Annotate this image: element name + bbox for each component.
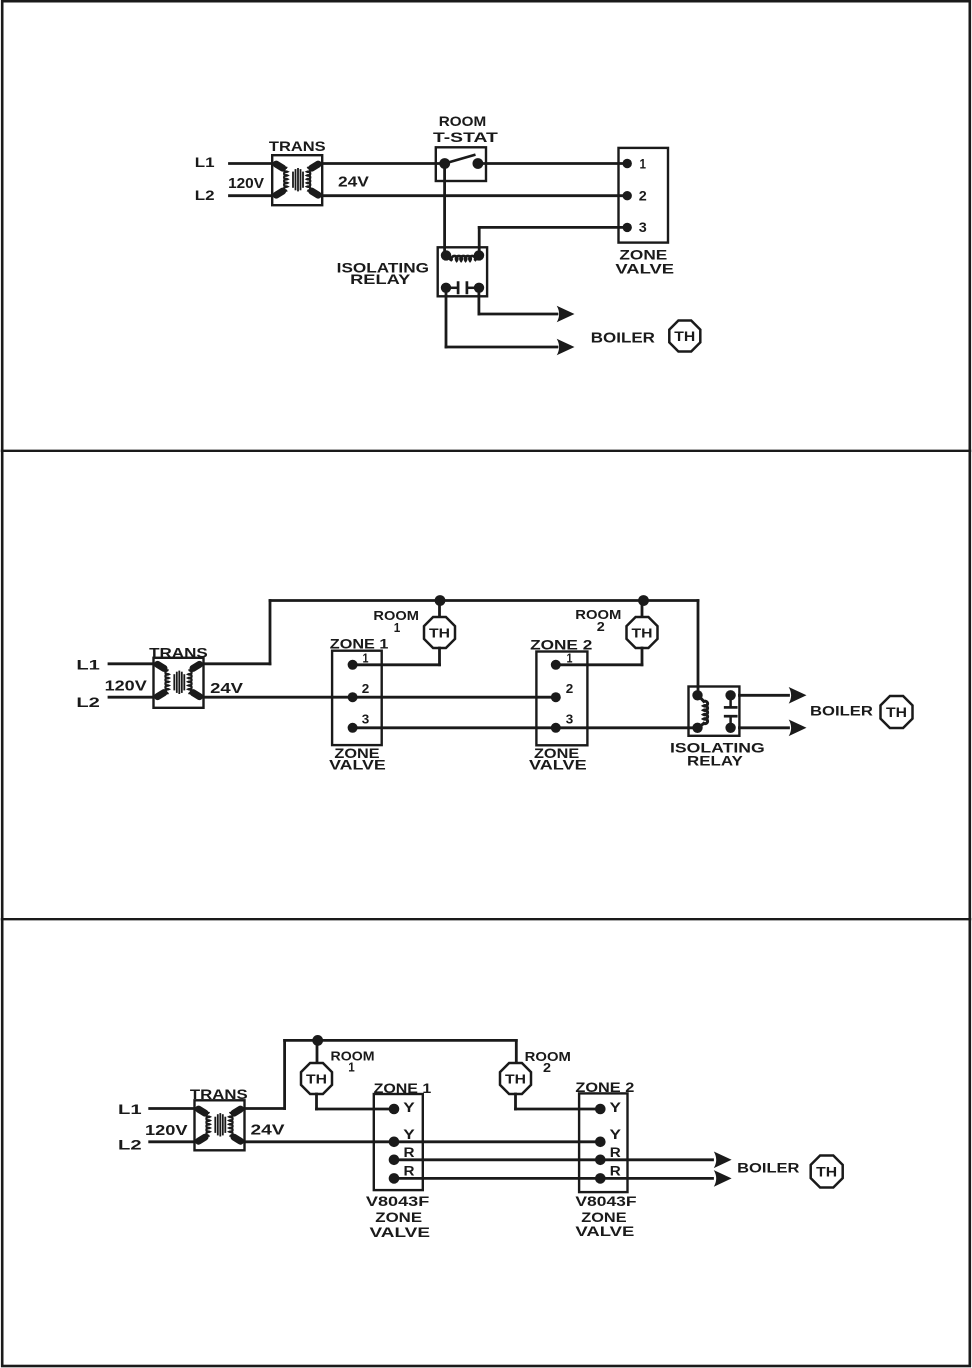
T-stat left terminal dot (panel 1) — [439, 158, 450, 169]
svg-text:R: R — [404, 1145, 415, 1160]
svg-text:1: 1 — [640, 156, 647, 171]
boiler arrow 1 (panel 2) — [789, 687, 807, 704]
wire L1 to transformer (panel 3) — [150, 1107, 195, 1110]
svg-text:24V: 24V — [251, 1122, 285, 1139]
zone 1 terminal 2 dot (panel 2) — [348, 692, 358, 702]
svg-text:TH: TH — [632, 625, 653, 640]
svg-text:120V: 120V — [105, 678, 147, 695]
wire riser to top bus (panel 2) — [269, 601, 272, 664]
zone 2 terminal R2 dot (panel 3) — [595, 1173, 606, 1184]
wire drop to ROOM 1 TH (panel 3) — [316, 1040, 319, 1064]
wire riser to relay coil right (panel 1) — [478, 227, 481, 255]
svg-text:120V: 120V — [145, 1122, 188, 1139]
wire to boiler arrow 1 (panel 1) — [479, 313, 557, 316]
panel separator line 2 — [2, 918, 970, 920]
T-stat right terminal dot (panel 1) — [473, 158, 484, 169]
wire drop to ROOM 2 TH (panel 3) — [515, 1040, 518, 1064]
wire ROOM 1 TH to zone 1 terminal 1 (panel 2) — [438, 648, 441, 665]
svg-text:3: 3 — [639, 220, 648, 235]
boiler arrow 2 (panel 1) — [557, 339, 575, 356]
svg-text:ZONE 2: ZONE 2 — [530, 637, 592, 653]
junction dot ROOM 2 (panel 2) — [638, 595, 649, 606]
svg-text:TH: TH — [816, 1163, 837, 1179]
boiler TH symbol (panel 3) — [811, 1156, 843, 1188]
zone valve 2 box (panel 2) — [536, 652, 587, 746]
wire zone valve terminal 3 row (panel 1) — [479, 226, 627, 229]
wire to boiler arrow 2 (panel 1) — [446, 346, 557, 349]
boiler TH symbol (panel 2) — [881, 696, 913, 728]
wire row A transformer to riser (panel 2) — [204, 662, 271, 665]
zone valve 2 box V8043F (panel 3) — [579, 1093, 627, 1192]
isolating relay box (panel 1) — [438, 247, 487, 296]
zone 2 terminal 3 dot (panel 2) — [551, 723, 561, 733]
relay contact symbol (panel 2) — [729, 695, 732, 706]
svg-text:2: 2 — [566, 681, 574, 696]
svg-text:2: 2 — [597, 619, 605, 634]
zone 1 terminal 3 dot (panel 2) — [348, 723, 358, 733]
wire relay contact right drop (panel 1) — [477, 288, 480, 314]
wire row A transformer to riser (panel 3) — [245, 1107, 285, 1110]
svg-text:3: 3 — [566, 711, 574, 726]
boiler arrow 2 (panel 3) — [714, 1170, 732, 1187]
wire ROOM 2 TH to zone 2 terminal 1 (panel 2) — [641, 648, 644, 665]
svg-text:V8043F: V8043F — [366, 1194, 429, 1209]
wire T-stat drop to isolating relay coil (panel 1) — [443, 164, 446, 256]
top bus wire (panel 2) — [270, 599, 698, 602]
room 2 thermostat TH symbol (panel 2) — [627, 617, 658, 648]
boiler arrow 1 (panel 3) — [714, 1152, 732, 1169]
svg-text:TRANS: TRANS — [269, 138, 326, 154]
relay contact bottom dot (panel 2) — [725, 723, 735, 733]
svg-text:2: 2 — [543, 1060, 551, 1075]
svg-text:R: R — [610, 1145, 621, 1160]
svg-text:V8043F: V8043F — [575, 1194, 636, 1209]
wire ROOM 1 TH to zone 1 terminal Y (panel 3) — [315, 1094, 318, 1109]
svg-text:Y: Y — [403, 1127, 415, 1142]
isolating relay box (panel 2) — [689, 687, 740, 736]
relay contact left dot (panel 1) — [441, 283, 451, 293]
wire zone 1 terminal 3 to relay (panel 2) — [353, 726, 698, 729]
svg-text:VALVE: VALVE — [575, 1224, 634, 1239]
zone 1 terminal R1 dot (panel 3) — [389, 1155, 400, 1166]
wire R2 row to boiler arrow 2 (panel 3) — [394, 1177, 713, 1180]
zone valve box (panel 1) — [619, 148, 669, 243]
room thermostat T-STAT box (panel 1) — [436, 147, 486, 181]
svg-text:TH: TH — [674, 328, 695, 344]
svg-text:T-STAT: T-STAT — [433, 129, 498, 145]
svg-text:VALVE: VALVE — [615, 261, 674, 277]
wire L2 to transformer (panel 2) — [109, 696, 154, 699]
svg-text:BOILER: BOILER — [737, 1161, 800, 1176]
zone 2 terminal Y1 dot (panel 3) — [595, 1104, 606, 1115]
svg-text:BOILER: BOILER — [591, 329, 655, 346]
svg-text:Y: Y — [610, 1100, 622, 1115]
svg-text:1: 1 — [567, 650, 573, 665]
svg-text:BOILER: BOILER — [810, 703, 873, 718]
boiler TH symbol (panel 1) — [669, 321, 700, 352]
top bus wire (panel 3) — [285, 1039, 517, 1042]
svg-text:R: R — [404, 1164, 415, 1179]
zone valve 1 box V8043F (panel 3) — [374, 1094, 423, 1190]
room 1 thermostat TH symbol (panel 3) — [301, 1063, 332, 1094]
svg-text:L2: L2 — [76, 694, 100, 710]
relay contact top dot (panel 2) — [725, 690, 735, 700]
zone 1 terminal 1 dot (panel 2) — [348, 660, 358, 670]
svg-text:RELAY: RELAY — [350, 271, 411, 287]
relay coil winding (panel 1) — [446, 255, 479, 260]
relay coil top dot (panel 2) — [692, 690, 702, 700]
zone 1 terminal Y1 dot (panel 3) — [389, 1104, 400, 1115]
svg-text:TH: TH — [429, 625, 450, 640]
svg-text:2: 2 — [639, 189, 647, 204]
zone valve terminal 1 dot (panel 1) — [623, 159, 632, 168]
svg-text:ZONE: ZONE — [581, 1210, 626, 1225]
wire relay contact left drop (panel 1) — [445, 288, 448, 347]
svg-text:L1: L1 — [118, 1101, 142, 1117]
svg-text:Y: Y — [403, 1100, 415, 1115]
relay contact right dot (panel 1) — [474, 283, 484, 293]
boiler arrow 2 (panel 2) — [789, 720, 807, 737]
relay coil right dot (panel 1) — [474, 250, 484, 260]
svg-text:TH: TH — [505, 1071, 526, 1086]
wire top bus drop to relay coil (panel 2) — [697, 601, 700, 696]
wire relay to boiler arrow 1 (panel 2) — [739, 694, 788, 697]
relay contact symbol (panel 1) — [446, 287, 457, 290]
svg-text:1: 1 — [363, 650, 369, 665]
svg-text:VALVE: VALVE — [370, 1225, 431, 1240]
svg-text:ROOM: ROOM — [439, 113, 487, 129]
wire 24V row B to zone valves (panel 2) — [204, 696, 556, 699]
svg-text:RELAY: RELAY — [687, 753, 744, 769]
wire drop to ROOM 2 TH (panel 2) — [641, 601, 644, 619]
svg-text:120V: 120V — [228, 175, 264, 192]
panel separator line 1 — [2, 450, 970, 452]
wire L1 to transformer (panel 1) — [230, 162, 273, 165]
room 2 thermostat TH symbol (panel 3) — [500, 1063, 531, 1094]
svg-text:R: R — [610, 1164, 621, 1179]
svg-text:3: 3 — [362, 711, 370, 726]
relay coil bottom dot (panel 2) — [692, 723, 702, 733]
svg-text:1: 1 — [348, 1060, 355, 1075]
svg-text:VALVE: VALVE — [529, 758, 587, 773]
wire L2 to transformer (panel 1) — [230, 194, 273, 197]
relay coil left dot (panel 1) — [441, 250, 451, 260]
T-stat switch arm (panel 1) — [445, 155, 475, 164]
wire R1 row to boiler arrow 1 (panel 3) — [394, 1158, 713, 1161]
zone 2 terminal Y2 dot (panel 3) — [595, 1137, 606, 1148]
wire row B transformer to zone valve terminal 2 (panel 1) — [322, 194, 627, 197]
wire L1 to transformer (panel 2) — [109, 662, 154, 665]
junction dot ROOM 1 (panel 2) — [435, 595, 446, 606]
zone 1 terminal R2 dot (panel 3) — [389, 1173, 400, 1184]
svg-text:ZONE 1: ZONE 1 — [330, 635, 389, 651]
svg-text:L2: L2 — [118, 1137, 142, 1153]
svg-text:ZONE: ZONE — [375, 1210, 422, 1225]
zone 2 terminal 2 dot (panel 2) — [551, 692, 561, 702]
zone valve terminal 2 dot (panel 1) — [623, 191, 632, 200]
zone valve 1 box (panel 2) — [332, 651, 382, 745]
svg-text:VALVE: VALVE — [329, 758, 386, 773]
zone 2 terminal R1 dot (panel 3) — [595, 1155, 606, 1166]
svg-text:2: 2 — [362, 681, 370, 696]
svg-text:24V: 24V — [338, 174, 369, 191]
svg-text:24V: 24V — [210, 680, 243, 697]
zone 1 terminal Y2 dot (panel 3) — [389, 1137, 400, 1148]
wire 24V row A transformer to T-stat (panel 1) — [322, 162, 445, 165]
svg-text:L2: L2 — [195, 187, 215, 203]
wire relay to boiler arrow 2 (panel 2) — [739, 726, 788, 729]
zone valve terminal 3 dot (panel 1) — [623, 223, 632, 232]
wire T-stat right to zone valve terminal 1 (panel 1) — [478, 162, 627, 165]
zone 2 terminal 1 dot (panel 2) — [551, 660, 561, 670]
svg-text:TH: TH — [886, 704, 907, 720]
wire riser to top bus (panel 3) — [283, 1040, 286, 1108]
svg-text:L1: L1 — [76, 656, 100, 672]
boiler arrow 1 (panel 1) — [557, 306, 575, 323]
svg-text:1: 1 — [394, 620, 401, 635]
svg-text:L1: L1 — [195, 154, 215, 170]
transformer TRANS (panel 1) — [272, 155, 322, 205]
wire L2 to transformer (panel 3) — [150, 1140, 195, 1143]
relay coil winding (panel 2) — [698, 695, 708, 728]
transformer TRANS (panel 3) — [195, 1100, 245, 1150]
wire 24V row B to zone valves (panel 3) — [245, 1140, 601, 1143]
transformer TRANS (panel 2) — [154, 658, 204, 708]
wire drop to ROOM 1 TH (panel 2) — [438, 601, 441, 619]
room 1 thermostat TH symbol (panel 2) — [424, 617, 455, 648]
svg-text:TH: TH — [306, 1071, 327, 1086]
svg-text:Y: Y — [610, 1127, 622, 1142]
wire ROOM 2 TH to zone 2 terminal Y (panel 3) — [514, 1094, 517, 1109]
junction dot ROOM 1 (panel 3) — [312, 1035, 323, 1046]
